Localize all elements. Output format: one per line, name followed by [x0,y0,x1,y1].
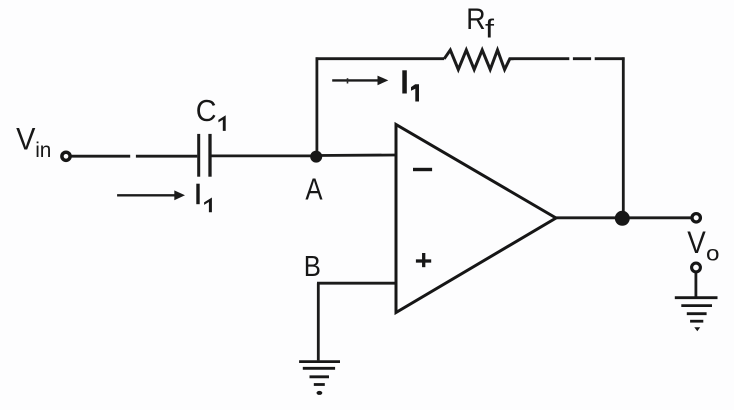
svg-text:R: R [466,3,485,36]
wire feedback dash 1 [573,57,591,60]
wire feedback dash 2 into corner [595,57,625,60]
node A [310,151,322,163]
svg-text:in: in [35,139,51,162]
svg-text:o: o [706,242,720,266]
node output [615,211,630,226]
op-amp minus sign [413,168,432,171]
label I1 feedback [402,70,407,93]
terminal Vin [62,152,70,160]
svg-text:f: f [485,13,495,43]
wire input segment 1 [72,155,131,158]
svg-text:V: V [687,225,706,260]
wire vertical B down to ground [317,283,320,360]
wire Vo terminal to ground [695,273,698,297]
wire feedback after resistor [514,57,570,60]
wire vertical node A up to feedback [315,57,318,156]
svg-text:A: A [305,172,323,206]
wire capacitor to node A [212,154,317,157]
op-amp U1 [396,125,556,313]
capacitor C1 [199,134,210,177]
wire feedback top horizontal [316,57,445,60]
resistor Rf [444,50,513,70]
wire op-amp output [556,216,691,219]
wire node A to op-amp inverting input [316,154,396,157]
op-amp plus sign [416,253,431,267]
wire non-inverting input [317,282,395,285]
arrow I1 feedback [332,76,388,86]
terminal below Vo [692,263,701,272]
label I1 input [196,184,199,205]
wire feedback vertical right down to output node [622,57,625,218]
wire input segment 2 [136,155,197,158]
arrow I1 input [117,190,185,200]
ground (Vo) [675,298,718,322]
ground (B input) [299,362,340,385]
svg-text:V: V [16,120,35,156]
svg-text:C: C [196,94,217,128]
terminal Vo [692,214,700,222]
svg-text:B: B [304,251,321,283]
